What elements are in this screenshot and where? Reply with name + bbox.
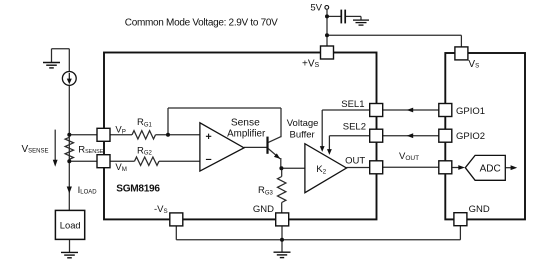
- svg-text:Amplifier: Amplifier: [227, 129, 266, 140]
- svg-text:Common Mode Voltage: 2.9V to 7: Common Mode Voltage: 2.9V to 70V: [125, 17, 278, 28]
- svg-text:GND: GND: [469, 204, 490, 215]
- svg-text:5V: 5V: [310, 2, 322, 13]
- svg-text:ADC: ADC: [480, 163, 501, 174]
- svg-text:Voltage: Voltage: [287, 118, 319, 129]
- svg-text:SGM8196: SGM8196: [116, 184, 160, 195]
- svg-text:GPIO1: GPIO1: [456, 106, 485, 117]
- svg-text:SEL2: SEL2: [343, 121, 366, 132]
- svg-text:GPIO2: GPIO2: [456, 131, 485, 142]
- svg-text:SEL1: SEL1: [341, 99, 364, 110]
- svg-text:OUT: OUT: [345, 156, 365, 167]
- svg-text:Load: Load: [60, 220, 81, 231]
- svg-text:GND: GND: [253, 204, 274, 215]
- svg-text:Sense: Sense: [231, 118, 260, 129]
- svg-text:Buffer: Buffer: [290, 129, 315, 140]
